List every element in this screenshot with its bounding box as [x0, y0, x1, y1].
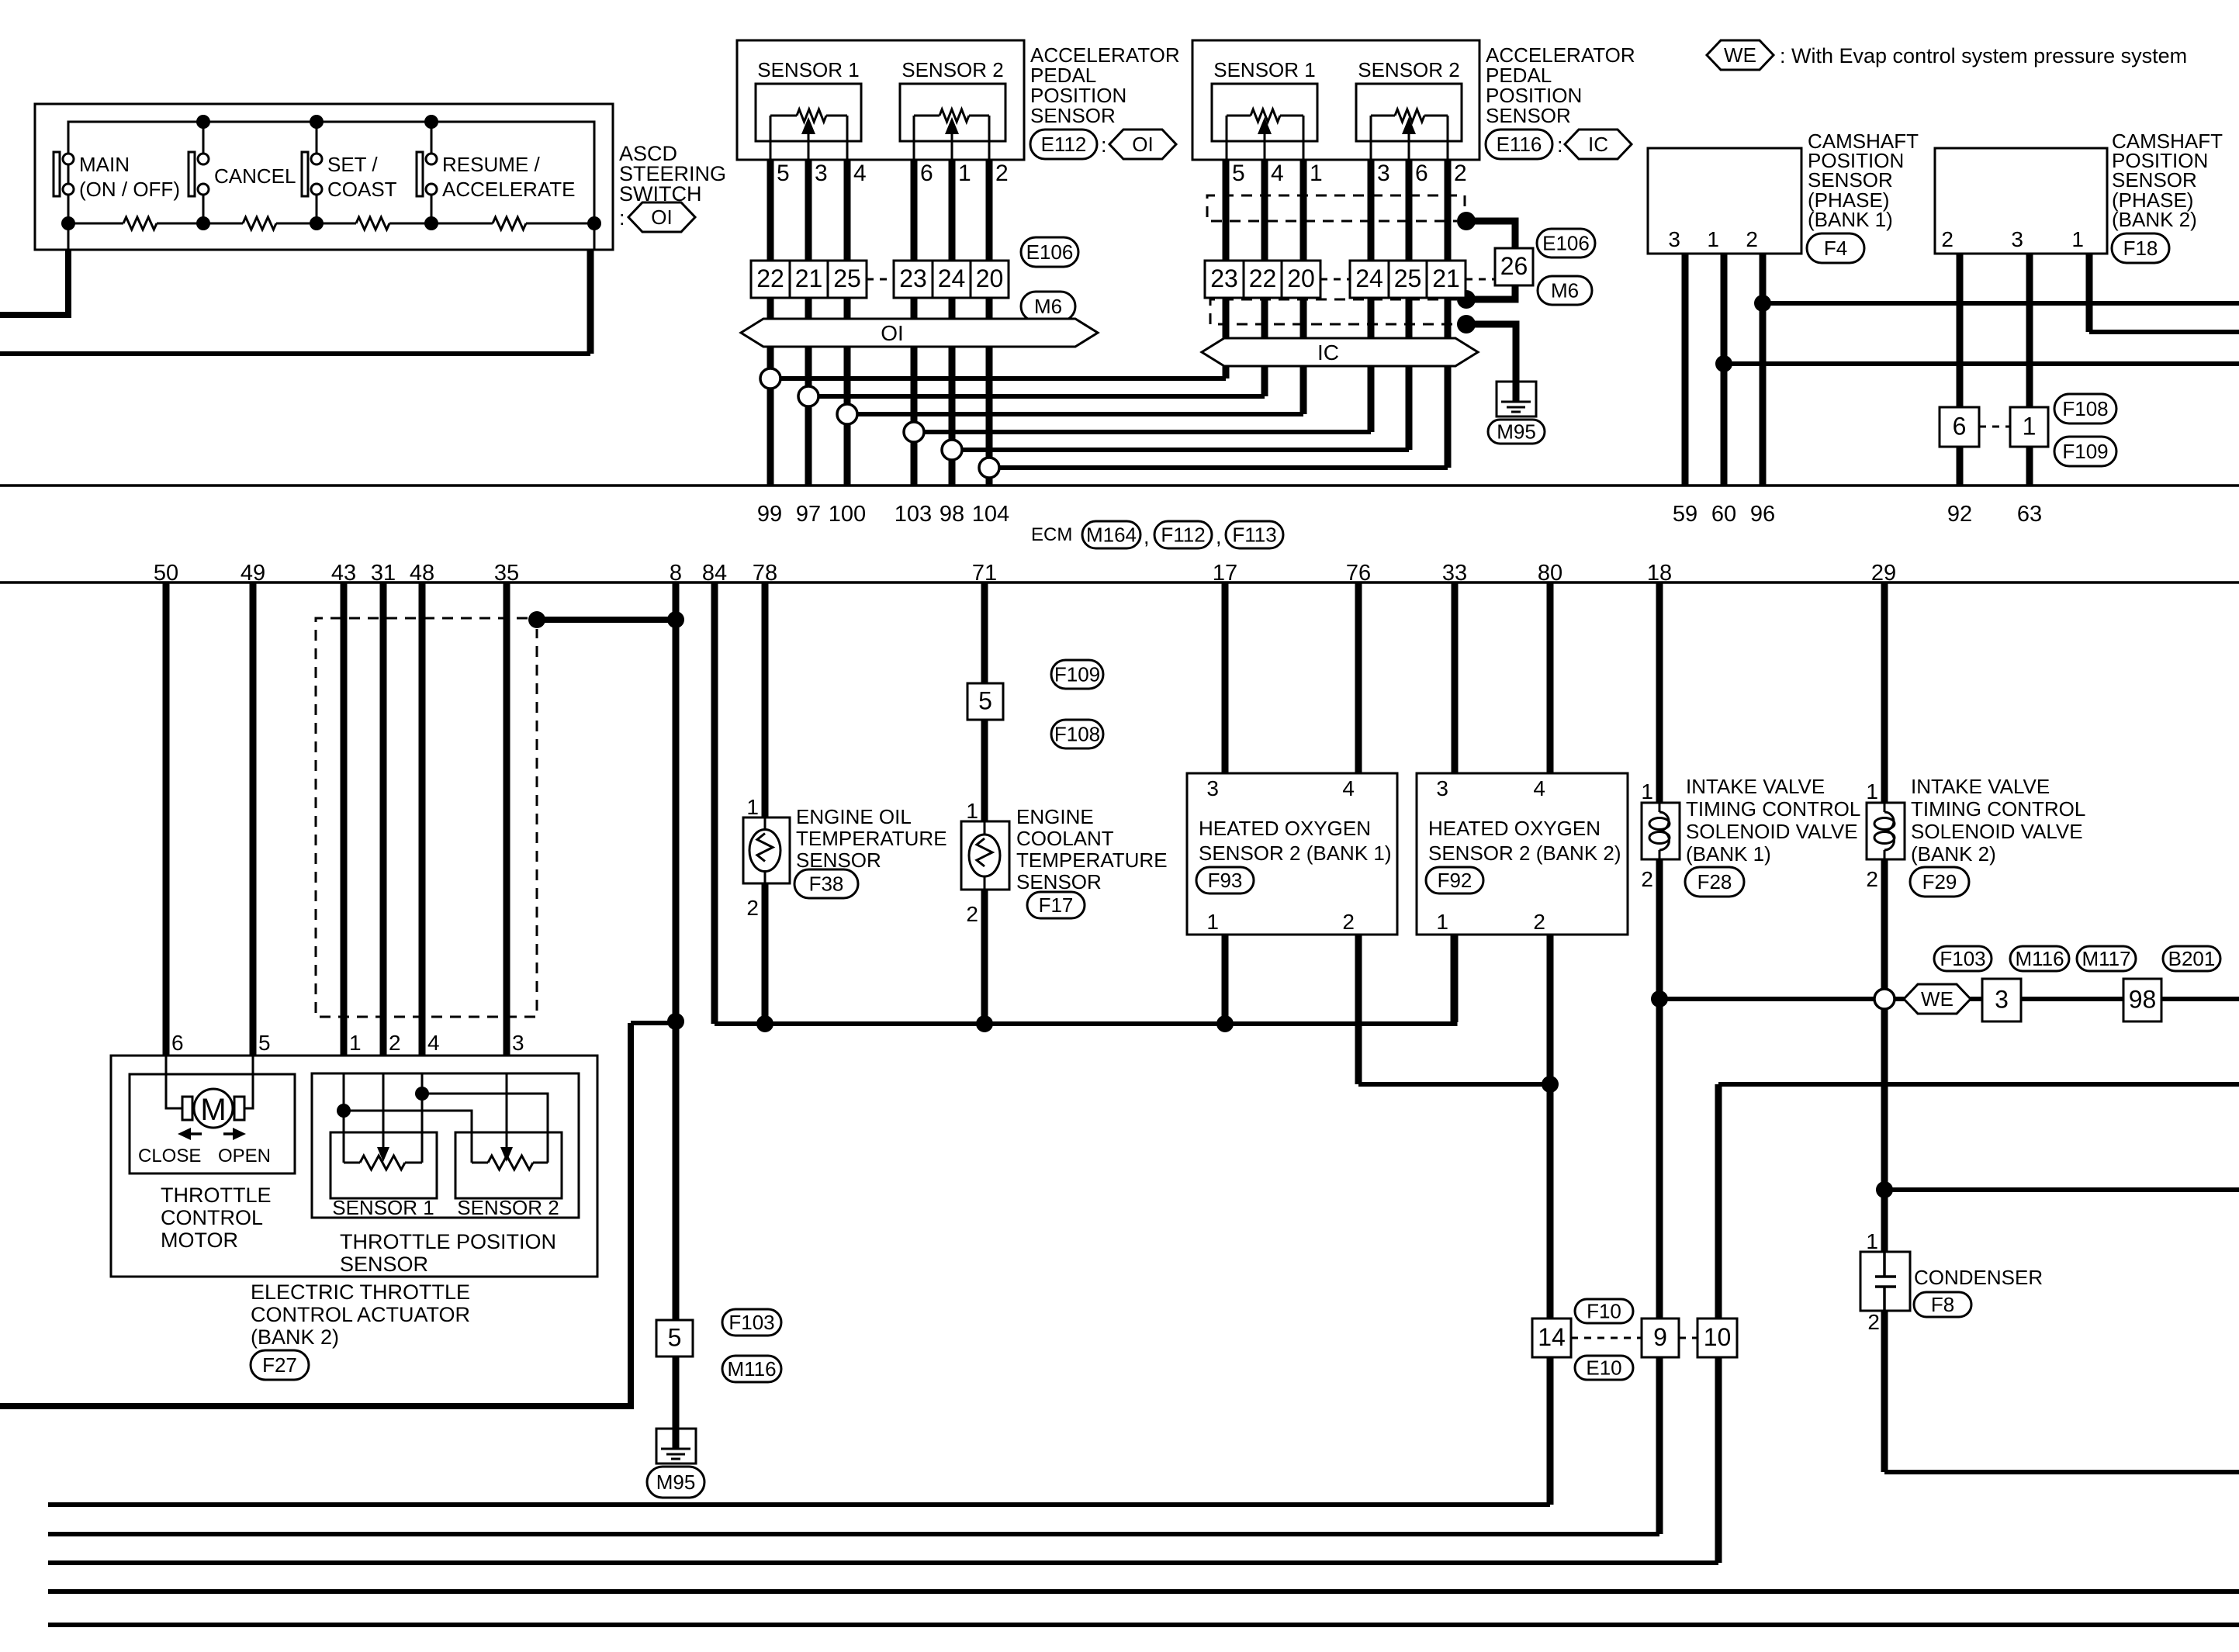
svg-text:OI: OI	[1132, 133, 1153, 156]
wire ECM 18 through intake valve timing solenoid bank1	[1656, 582, 1663, 803]
svg-text:10: 10	[1704, 1323, 1732, 1351]
svg-text::: :	[1557, 133, 1563, 157]
potentiometer E116 sensor 2	[1371, 115, 1395, 117]
svg-text:2: 2	[1867, 1310, 1880, 1334]
svg-text:25: 25	[1394, 264, 1422, 292]
wire ECM 80 to HO2S bank2 pin4	[1547, 582, 1554, 773]
wire ECM 76 to HO2S bank1 pin4	[1355, 582, 1362, 773]
svg-text:3: 3	[815, 161, 828, 186]
sensor 2 inner box (E116)	[1356, 84, 1462, 141]
node: bank1 pin2 splice	[1754, 295, 1771, 312]
svg-text:OPEN: OPEN	[218, 1146, 271, 1166]
svg-text:1: 1	[349, 1031, 362, 1055]
svg-text:20: 20	[976, 264, 1004, 292]
svg-text:1: 1	[1866, 1229, 1878, 1253]
svg-text:THROTTLE POSITION: THROTTLE POSITION	[340, 1230, 556, 1253]
intake valve timing control solenoid valve (bank1) F28	[1642, 803, 1680, 859]
connector codes F103 M116 M117 B201	[1934, 946, 1992, 971]
svg-text:4: 4	[1533, 776, 1545, 800]
svg-text:1: 1	[1206, 910, 1219, 934]
wire camshaft bank2 pin2 to ECM 92	[1957, 254, 1964, 486]
node: splice ring wire 103	[904, 422, 924, 442]
connector 5 box (F103/M116)	[656, 1320, 693, 1357]
svg-text:22: 22	[1249, 264, 1277, 292]
shield dashed box around TPS wires	[316, 618, 537, 1017]
accelerator pedal position sensor E112 box	[737, 40, 1024, 160]
svg-text:(BANK 2): (BANK 2)	[1911, 842, 1996, 866]
wire: ASCD right side to left edge	[593, 223, 596, 250]
wire E112 to ECM pin 97	[805, 140, 812, 486]
svg-text:E106: E106	[1542, 232, 1590, 255]
wire HO2S bank1 pin2 link to bank2 pin2	[1358, 1082, 1550, 1087]
wire ECM 48 to TPS pin 4	[419, 582, 426, 1073]
svg-text:6: 6	[171, 1031, 184, 1055]
camshaft position sensor (PHASE)(BANK 2) box	[1935, 148, 2107, 254]
svg-text:F108: F108	[2062, 397, 2108, 420]
node: TPS splice wire1	[337, 1104, 351, 1118]
svg-text:76: 76	[1346, 561, 1371, 586]
svg-text:TEMPERATURE: TEMPERATURE	[796, 827, 947, 850]
svg-text:CANCEL: CANCEL	[214, 164, 296, 188]
resistor R1 (MAIN-CANCEL)	[123, 217, 157, 230]
condenser F8	[1860, 1252, 1910, 1311]
svg-text:4: 4	[1342, 776, 1355, 800]
svg-text:CONTROL ACTUATOR: CONTROL ACTUATOR	[251, 1303, 470, 1326]
wire ECM 43 to TPS pin 1	[341, 582, 348, 1073]
connector code M6 (IC)	[1538, 276, 1592, 305]
svg-text:1: 1	[1707, 227, 1719, 251]
svg-text:OI: OI	[881, 321, 904, 345]
svg-text:TIMING CONTROL: TIMING CONTROL	[1686, 797, 1860, 821]
svg-text:24: 24	[1355, 264, 1383, 292]
svg-text:1: 1	[958, 161, 971, 186]
wire condenser pin2 to right edge	[1881, 1311, 1888, 1472]
svg-text:TEMPERATURE: TEMPERATURE	[1016, 848, 1168, 872]
wire E116 via connector 21	[1445, 140, 1452, 468]
svg-text:78: 78	[753, 561, 777, 586]
wire: connector 5 to ground M95	[673, 1357, 680, 1446]
node: solenoid bank1 splice	[1651, 990, 1668, 1007]
svg-text:1: 1	[1641, 779, 1653, 804]
svg-text:2: 2	[746, 896, 759, 920]
svg-text:(BANK 2): (BANK 2)	[251, 1325, 339, 1349]
wire: MAIN switch to left edge	[67, 223, 70, 250]
wire ECM 29 through intake valve timing solenoid bank2	[1881, 582, 1888, 803]
node: splice ring wire 99	[760, 368, 780, 389]
node: condenser wire splice	[1876, 1181, 1893, 1198]
motor direction arrows	[189, 1132, 202, 1135]
svg-text:F108: F108	[1054, 723, 1100, 746]
electric throttle control actuator box F27	[111, 1056, 597, 1277]
svg-text:ENGINE OIL: ENGINE OIL	[796, 805, 912, 828]
svg-text:SET /: SET /	[327, 153, 378, 176]
svg-text:1: 1	[1866, 779, 1878, 804]
svg-text:5: 5	[668, 1324, 682, 1352]
svg-text:104: 104	[972, 502, 1009, 527]
wire: sensor ground bus	[715, 1021, 1454, 1026]
wire: shield to wire 8 ground link	[537, 617, 676, 623]
svg-text:F28: F28	[1697, 870, 1732, 893]
svg-text:F109: F109	[2062, 440, 2108, 463]
svg-text:4: 4	[1271, 161, 1284, 186]
resistor R4 (RESUME-right)	[493, 217, 526, 230]
svg-text:1: 1	[1310, 161, 1323, 186]
svg-text:5: 5	[258, 1031, 271, 1055]
node: splice ring wire 97	[798, 386, 818, 406]
connector code E106 (IC)	[1537, 229, 1595, 257]
svg-text:2: 2	[1641, 867, 1653, 891]
svg-text:: With Evap control system pre: : With Evap control system pressure syst…	[1780, 44, 2187, 67]
node: open splice ring WE	[1874, 989, 1895, 1009]
svg-text:22: 22	[756, 264, 784, 292]
connector 9 box	[1642, 1318, 1679, 1357]
ASCD bottom rail wire	[68, 223, 123, 225]
svg-text:3: 3	[1377, 161, 1390, 186]
wire ECM 33 to HO2S bank2 pin3	[1452, 582, 1459, 773]
svg-text:29: 29	[1871, 561, 1896, 586]
svg-text:2: 2	[1533, 910, 1545, 934]
node: wire 8 splice top	[667, 611, 684, 628]
shield dashed box upper (E116)	[1207, 195, 1457, 221]
svg-text:48: 48	[410, 561, 434, 586]
wire E112 to ECM pin 98	[949, 140, 956, 486]
wire E116-25 to splice ring 98	[962, 448, 1409, 452]
connector 3 box	[1982, 979, 2021, 1021]
sensor 1 inner box	[756, 84, 861, 141]
svg-text:M6: M6	[1034, 295, 1062, 318]
node: wire 8 splice	[667, 1013, 684, 1030]
svg-text:60: 60	[1711, 502, 1736, 527]
svg-text:OI: OI	[651, 206, 672, 229]
svg-text:3: 3	[1995, 986, 2009, 1014]
wire HO2S bank1 pin1 to bus	[1222, 935, 1229, 1024]
svg-text:M: M	[200, 1093, 226, 1127]
svg-text:2: 2	[966, 902, 978, 926]
wire E116-22 to splice ring 97	[818, 394, 1265, 399]
svg-text:1: 1	[1436, 910, 1448, 934]
connector 5 box (F109/F108)	[967, 683, 1003, 720]
wire E112 to ECM pin 100	[844, 140, 851, 486]
svg-text::: :	[1101, 133, 1107, 157]
resistor R3 (SET-RESUME)	[356, 217, 389, 230]
svg-text:4: 4	[853, 161, 867, 186]
throttle control motor box	[130, 1074, 295, 1173]
svg-text:E116: E116	[1497, 133, 1542, 156]
svg-text:F4: F4	[1824, 237, 1847, 260]
svg-text:5: 5	[978, 687, 992, 715]
wire camshaft bank1 pin1 to ECM 60	[1721, 254, 1728, 486]
wire camshaft bank1 pin2 to ECM 96	[1760, 254, 1767, 486]
node: splice ring wire 98	[942, 440, 962, 460]
svg-text:IC: IC	[1588, 133, 1608, 156]
switch CANCEL	[202, 122, 205, 154]
wire ECM 78 through engine oil temperature sensor	[762, 582, 769, 817]
svg-text:F29: F29	[1922, 870, 1957, 893]
svg-text:3: 3	[1436, 776, 1448, 800]
bottom bus wire 5	[48, 1623, 2239, 1627]
node: ASCD bottom rail dot x=408	[310, 216, 324, 230]
svg-text:ENGINE: ENGINE	[1016, 805, 1094, 828]
svg-text:SENSOR: SENSOR	[1016, 870, 1102, 893]
svg-text:59: 59	[1673, 502, 1697, 527]
bottom bus wire 1	[48, 1502, 1550, 1507]
wire E112 to ECM pin 104	[986, 140, 993, 486]
svg-text:1: 1	[746, 795, 759, 819]
switch SET / COAST	[316, 122, 318, 154]
svg-text:(BANK 1): (BANK 1)	[1686, 842, 1771, 866]
wire: bank1 pin1 to right edge	[1724, 361, 2239, 366]
resistor R2 (CANCEL-SET)	[243, 217, 276, 230]
svg-text:63: 63	[2017, 502, 2042, 527]
wire E116 via connector 24	[1368, 140, 1375, 432]
svg-text:M95: M95	[656, 1471, 696, 1494]
svg-text::: :	[619, 206, 625, 230]
connector code OI hexagon	[628, 202, 695, 232]
svg-text:1: 1	[2071, 227, 2084, 251]
svg-text:2: 2	[995, 161, 1009, 186]
WE hexagon on wire	[1904, 984, 1971, 1014]
svg-text:97: 97	[796, 502, 821, 527]
svg-text:M6: M6	[1551, 279, 1579, 302]
potentiometer sensor 2	[914, 115, 940, 117]
svg-text:MAIN: MAIN	[79, 153, 130, 176]
svg-text:F103: F103	[728, 1311, 774, 1334]
svg-text:SENSOR 2 (BANK 2): SENSOR 2 (BANK 2)	[1428, 842, 1621, 865]
switch MAIN (ON / OFF)	[67, 122, 70, 154]
svg-text:84: 84	[702, 561, 727, 586]
svg-text:F38: F38	[809, 873, 844, 896]
connector 98 box	[2123, 979, 2161, 1021]
legend WE hexagon	[1707, 40, 1774, 70]
svg-text:F8: F8	[1931, 1293, 1954, 1316]
node: ASCD top rail dot x=556	[424, 115, 438, 129]
wire E116 via connector 22	[1261, 140, 1268, 396]
svg-text:3: 3	[2011, 227, 2023, 251]
svg-text:26: 26	[1500, 252, 1528, 280]
wire camshaft bank1 pin3 to ECM 59	[1682, 254, 1689, 486]
svg-text:98: 98	[2129, 986, 2157, 1014]
svg-text:SENSOR 2: SENSOR 2	[457, 1196, 559, 1219]
svg-text:INTAKE VALVE: INTAKE VALVE	[1686, 775, 1825, 798]
svg-text:COOLANT: COOLANT	[1016, 827, 1114, 850]
connector 10 box	[1697, 1318, 1737, 1357]
bottom bus wire 2	[48, 1532, 1659, 1536]
svg-text:24: 24	[938, 264, 966, 292]
svg-text:2: 2	[1746, 227, 1758, 251]
wire ECM 50 to motor pin 6	[163, 582, 170, 1056]
connector 14 box (F10/E10)	[1532, 1318, 1571, 1357]
svg-text:WE: WE	[1724, 43, 1756, 67]
wire HO2S bank2 pin2 down to bottom bus 1	[1547, 935, 1554, 1505]
accelerator pedal position sensor E116 box	[1192, 40, 1479, 160]
svg-text:18: 18	[1647, 561, 1672, 586]
wire ECM 17 to HO2S bank1 pin3	[1222, 582, 1229, 773]
wire ECM 8 (sensor ground)	[673, 582, 680, 1320]
wire ECM 49 to motor pin 5	[250, 582, 257, 1056]
wire E116 via connector 23	[1223, 140, 1230, 378]
svg-text:ACCELERATE: ACCELERATE	[442, 178, 575, 201]
node: shield splice mid	[1457, 290, 1476, 309]
intake valve timing control solenoid valve (bank2) F29	[1867, 803, 1905, 859]
node: bus splice 78	[756, 1015, 773, 1032]
svg-text:MOTOR: MOTOR	[161, 1229, 238, 1252]
heated oxygen sensor 2 (bank 2) box F92	[1417, 773, 1628, 935]
harness band IC	[1202, 338, 1478, 366]
svg-text:COAST: COAST	[327, 178, 397, 201]
svg-text:SENSOR 2: SENSOR 2	[901, 58, 1004, 81]
TPS sensor 1 inner box	[330, 1132, 437, 1198]
svg-text:2: 2	[1454, 161, 1467, 186]
svg-text:E112: E112	[1041, 133, 1087, 156]
sensor 1 inner box (E116)	[1212, 84, 1317, 141]
svg-text:CLOSE: CLOSE	[138, 1146, 201, 1166]
svg-text:3: 3	[1206, 776, 1219, 800]
node: ASCD bottom rail dot x=88	[61, 216, 75, 230]
svg-text:F18: F18	[2123, 237, 2158, 260]
wire: bank1 pin2 to right edge	[1763, 301, 2239, 306]
svg-text:9: 9	[1653, 1323, 1667, 1351]
wire ECM 71 through engine coolant temperature sensor	[981, 582, 988, 683]
svg-text:WE: WE	[1921, 987, 1954, 1011]
svg-text:F10: F10	[1587, 1300, 1621, 1323]
svg-text:RESUME /: RESUME /	[442, 153, 540, 176]
sensor 2 inner box	[900, 84, 1005, 141]
node: splice ring wire 104	[979, 458, 999, 478]
camshaft position sensor (PHASE)(BANK 1) box	[1648, 148, 1801, 254]
ground M95 (lower)	[656, 1429, 696, 1464]
svg-text:23: 23	[1210, 264, 1238, 292]
ECM bottom boundary line	[0, 581, 2239, 584]
connector 6 box (F108/F109)	[1940, 407, 1979, 447]
svg-text:2: 2	[1941, 227, 1954, 251]
heated oxygen sensor 2 (bank 1) box F93	[1187, 773, 1397, 935]
node: ASCD top rail dot x=262	[196, 115, 210, 129]
svg-text:17: 17	[1213, 561, 1237, 586]
wire: ground feed link	[631, 1021, 676, 1025]
wire E116 via connector 25	[1406, 140, 1413, 450]
connector row E106/M6 (OI side)	[751, 261, 790, 298]
svg-text:SENSOR 1: SENSOR 1	[757, 58, 860, 81]
svg-text:6: 6	[1953, 413, 1967, 441]
svg-text:4: 4	[427, 1031, 440, 1055]
svg-text:(BANK 1): (BANK 1)	[1808, 208, 1893, 231]
svg-text:ECM: ECM	[1031, 524, 1072, 545]
wire ECM 35 to TPS pin 3	[504, 582, 510, 1073]
svg-text:(BANK 2): (BANK 2)	[2112, 208, 2197, 231]
svg-text:F113: F113	[1232, 524, 1276, 547]
svg-text:HEATED OXYGEN: HEATED OXYGEN	[1428, 817, 1601, 840]
wire E116 via connector 20	[1300, 140, 1307, 414]
node: bus splice HO2S1	[1216, 1015, 1234, 1032]
TPS sensor 2 inner box	[455, 1132, 562, 1198]
svg-text:3: 3	[512, 1031, 524, 1055]
wire: shield drain via connector 26	[1466, 221, 1515, 299]
svg-text:E10: E10	[1586, 1357, 1621, 1380]
wire condenser splice to right edge	[1884, 1187, 2239, 1192]
motor M	[182, 1097, 192, 1120]
TPS potentiometer sensor 2	[344, 1111, 472, 1163]
svg-text:,: ,	[1216, 525, 1222, 548]
svg-text:M117: M117	[2082, 947, 2130, 970]
wire WE option line to right edge	[1659, 997, 2239, 1001]
connector 1 box (F108/F109)	[2010, 407, 2048, 447]
svg-text:CONDENSER: CONDENSER	[1914, 1266, 2043, 1289]
svg-text:6: 6	[1415, 161, 1428, 186]
svg-text:M95: M95	[1497, 420, 1536, 444]
node: shield splice top	[1457, 212, 1476, 230]
svg-text:SOLENOID VALVE: SOLENOID VALVE	[1911, 820, 2083, 843]
svg-text:INTAKE VALVE: INTAKE VALVE	[1911, 775, 2050, 798]
svg-text:33: 33	[1442, 561, 1467, 586]
svg-text:ELECTRIC THROTTLE: ELECTRIC THROTTLE	[251, 1280, 470, 1304]
node: shield splice	[528, 611, 545, 628]
svg-text:5: 5	[1232, 161, 1245, 186]
svg-text:14: 14	[1538, 1323, 1566, 1351]
svg-text:THROTTLE: THROTTLE	[161, 1184, 272, 1207]
svg-text:35: 35	[494, 561, 519, 586]
svg-text:2: 2	[1342, 910, 1355, 934]
node: bank1 pin1 splice	[1715, 355, 1732, 372]
wire: bank2 pin1 to right edge	[2086, 254, 2093, 332]
svg-text:F112: F112	[1161, 524, 1205, 547]
svg-text:23: 23	[899, 264, 927, 292]
harness band OI	[741, 319, 1098, 347]
bottom bus wire 3	[48, 1560, 1718, 1565]
wires into motor	[166, 1056, 182, 1108]
svg-text:F17: F17	[1039, 893, 1074, 917]
svg-text:2: 2	[389, 1031, 401, 1055]
wire: bus riser to HO2S bank2 pin1	[1451, 935, 1458, 1026]
wire E116-23 to splice ring 99	[780, 376, 1226, 381]
node: splice ring wire 100	[837, 404, 857, 424]
wire ECM 84 down to bus corner	[711, 582, 718, 1024]
svg-text:HEATED OXYGEN: HEATED OXYGEN	[1199, 817, 1371, 840]
svg-text:SENSOR 1: SENSOR 1	[1213, 58, 1316, 81]
node: bus splice 71	[976, 1015, 993, 1032]
TPS potentiometer sensor 1	[343, 1073, 345, 1163]
ASCD inner rail box	[68, 122, 594, 223]
node: ASCD top rail dot x=408	[310, 115, 324, 129]
svg-text:SENSOR 1: SENSOR 1	[332, 1196, 434, 1219]
wire E116-24 to splice ring 103	[924, 430, 1371, 434]
svg-text:SENSOR 2: SENSOR 2	[1358, 58, 1460, 81]
svg-text:31: 31	[371, 561, 396, 586]
svg-text:1: 1	[2023, 413, 2037, 441]
wire E116-20 to splice ring 100	[857, 412, 1303, 416]
ASCD steering switch outer box	[35, 104, 613, 250]
connector code M6	[1021, 292, 1075, 321]
svg-text:50: 50	[154, 561, 178, 586]
wire: ground feed down-left to left edge	[0, 1023, 631, 1406]
svg-text:SENSOR: SENSOR	[340, 1253, 428, 1276]
svg-text:5: 5	[777, 161, 790, 186]
engine coolant temperature sensor F17	[961, 821, 1009, 890]
connector 26 box	[1495, 248, 1533, 285]
svg-text:SENSOR: SENSOR	[1486, 104, 1571, 127]
svg-text:SENSOR 2 (BANK 1): SENSOR 2 (BANK 1)	[1199, 842, 1392, 865]
svg-text:F92: F92	[1438, 869, 1472, 892]
svg-text:100: 100	[829, 502, 866, 527]
svg-text:3: 3	[1668, 227, 1680, 251]
node: TPS splice wire4	[415, 1087, 429, 1101]
wire HO2S bank1 pin2 down	[1355, 935, 1362, 1084]
svg-text:96: 96	[1750, 502, 1775, 527]
svg-text:E106: E106	[1026, 240, 1074, 264]
svg-text:TIMING CONTROL: TIMING CONTROL	[1911, 797, 2085, 821]
ECM top boundary line	[0, 484, 2239, 487]
svg-text:43: 43	[331, 561, 356, 586]
svg-text:71: 71	[972, 561, 997, 586]
